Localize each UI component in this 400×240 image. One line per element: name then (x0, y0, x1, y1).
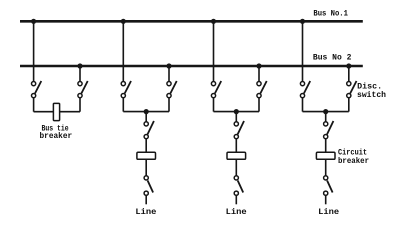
wire bay2 left leg from bus1 (122, 21, 124, 81)
disconnect switch bay3 left (211, 81, 221, 98)
circuit breaker bay3 (227, 152, 246, 159)
svg-text:Line: Line (226, 208, 247, 217)
wire bay4 left leg lower (302, 98, 304, 112)
wire bay2 switch to breaker (145, 139, 147, 153)
node bus1/bay3 junction (211, 19, 216, 24)
wire bay2 breaker to lower switch (145, 159, 147, 175)
wire bay3 right leg from bus2 (258, 66, 260, 81)
node bay2 feeder junction (144, 109, 149, 114)
wire bay2 right leg from bus2 (168, 66, 170, 81)
wire bay4 join horizontal (303, 111, 349, 113)
node bus2/bay4 junction (346, 63, 351, 68)
node bay3 feeder junction (234, 109, 239, 114)
svg-text:breaker: breaker (338, 157, 369, 166)
wire bay4 breaker to lower switch (325, 159, 327, 175)
bus tie breaker rectangle (53, 103, 59, 120)
wire bay4 switch to breaker (325, 139, 327, 153)
disconnect switch bay1 left (31, 81, 41, 98)
wire bay1 right leg lower (79, 98, 81, 112)
wire bay4 right leg from bus2 (348, 66, 350, 81)
svg-text:Line: Line (135, 208, 156, 217)
disconnect switch bay4 feeder lower (324, 176, 333, 196)
disconnect switch bay4 right (Disc. switch) (347, 81, 357, 98)
wire bay1 left leg from bus1 (33, 21, 35, 81)
wire bay4 right leg lower (348, 98, 350, 112)
svg-text:Bus No 2: Bus No 2 (313, 53, 352, 62)
wire bay3 left leg lower (213, 98, 215, 112)
disconnect switch bay3 right (257, 81, 267, 98)
wire bay2 line stub (145, 195, 147, 204)
wire bay2 feeder upper (145, 112, 147, 122)
svg-text:Bus No.1: Bus No.1 (313, 10, 348, 19)
wire bay3 breaker to lower switch (235, 159, 237, 175)
wire bay1 left leg lower (33, 98, 35, 112)
disconnect switch bay2 feeder lower (144, 176, 153, 196)
wire bay2 left leg lower (122, 98, 124, 112)
node bus2/bay3 junction (256, 63, 261, 68)
wire bay4 left leg from bus1 (302, 21, 304, 81)
node bus1/bay4 junction (300, 19, 305, 24)
node bus2/bay1 junction (77, 63, 82, 68)
wire bay4 feeder upper (325, 112, 327, 122)
wire bay2 join horizontal (123, 111, 169, 113)
wire bay3 feeder upper (235, 112, 237, 122)
wire bay1 bottom horizontal (34, 111, 80, 113)
disconnect switch bay2 feeder upper (144, 121, 154, 139)
svg-text:Line: Line (318, 208, 339, 217)
svg-text:switch: switch (357, 91, 386, 100)
wire bay2 right leg lower (168, 98, 170, 112)
disconnect switch bay4 feeder upper (324, 121, 334, 139)
wire bay3 left leg from bus1 (213, 21, 215, 81)
wire bay1 right leg from bus2 (79, 66, 81, 81)
node bay4 feeder junction (323, 109, 328, 114)
svg-text:Disc.: Disc. (357, 82, 382, 91)
node bus1/bay1 junction (31, 19, 36, 24)
disconnect switch bay3 feeder lower (234, 176, 243, 196)
wire bay4 line stub (325, 195, 327, 204)
svg-text:Circuit: Circuit (338, 148, 367, 157)
bus No.1 (20, 20, 363, 23)
node bus2/bay2 junction (166, 63, 171, 68)
bus No.2 (20, 65, 363, 68)
circuit breaker bay2 (137, 152, 156, 159)
node bus1/bay2 junction (121, 19, 126, 24)
wire bay3 line stub (235, 195, 237, 204)
wire bay3 switch to breaker (235, 139, 237, 153)
circuit breaker bay4 (316, 152, 335, 159)
wire bay3 right leg lower (258, 98, 260, 112)
disconnect switch bay4 left (300, 81, 310, 98)
disconnect switch bay2 left (121, 81, 131, 98)
wire bay3 join horizontal (214, 111, 260, 113)
svg-text:breaker: breaker (40, 132, 73, 141)
disconnect switch bay2 right (167, 81, 177, 98)
disconnect switch bay3 feeder upper (234, 121, 244, 139)
disconnect switch bay1 right (78, 81, 88, 98)
